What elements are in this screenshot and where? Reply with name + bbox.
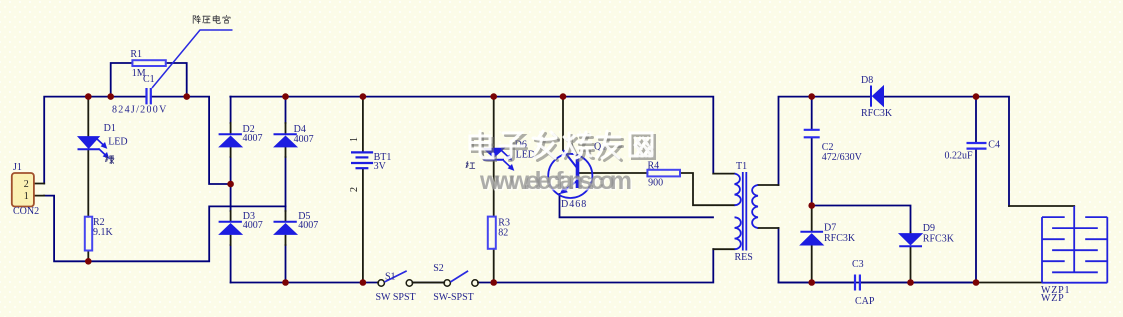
svg-text:RFC3K: RFC3K	[923, 234, 955, 245]
svg-text:9.1K: 9.1K	[93, 227, 114, 238]
svg-text:LED: LED	[108, 137, 127, 148]
svg-text:C1: C1	[143, 74, 155, 85]
svg-text:4007: 4007	[298, 220, 318, 231]
svg-text:82: 82	[498, 228, 508, 239]
svg-text:3V: 3V	[374, 161, 387, 172]
svg-text:1: 1	[349, 137, 360, 142]
svg-text:4007: 4007	[294, 134, 314, 145]
svg-text:R1: R1	[130, 49, 142, 60]
svg-text:824J/200V: 824J/200V	[112, 105, 168, 116]
svg-text:S1: S1	[385, 272, 396, 283]
svg-text:RFC3K: RFC3K	[861, 108, 893, 119]
svg-text:2: 2	[349, 187, 360, 192]
svg-text:www.elecfans.com: www.elecfans.com	[479, 167, 632, 195]
svg-text:1: 1	[24, 191, 29, 202]
svg-text:2: 2	[24, 179, 29, 190]
svg-text:R4: R4	[648, 161, 660, 172]
svg-text:J1: J1	[13, 162, 22, 173]
svg-text:C3: C3	[852, 259, 864, 270]
svg-text:WZP: WZP	[1041, 293, 1065, 304]
svg-text:0.22uF: 0.22uF	[945, 151, 974, 162]
svg-text:RES: RES	[735, 252, 753, 263]
svg-text:D468: D468	[561, 199, 587, 210]
svg-text:T1: T1	[736, 161, 747, 172]
svg-text:4007: 4007	[243, 133, 263, 144]
svg-text:D8: D8	[861, 75, 873, 86]
svg-text:4007: 4007	[243, 220, 263, 231]
svg-text:C4: C4	[988, 140, 1000, 151]
svg-text:900: 900	[648, 178, 663, 189]
svg-text:RFC3K: RFC3K	[824, 233, 856, 244]
svg-text:SW SPST: SW SPST	[376, 292, 416, 303]
svg-text:D7: D7	[824, 223, 836, 234]
svg-text:CAP: CAP	[855, 296, 875, 307]
svg-text:D9: D9	[923, 223, 935, 234]
svg-text:SW-SPST: SW-SPST	[433, 292, 474, 303]
svg-text:D1: D1	[104, 123, 116, 134]
svg-text:S2: S2	[433, 263, 444, 274]
svg-text:472/630V: 472/630V	[822, 152, 863, 163]
svg-text:CON2: CON2	[13, 206, 39, 217]
